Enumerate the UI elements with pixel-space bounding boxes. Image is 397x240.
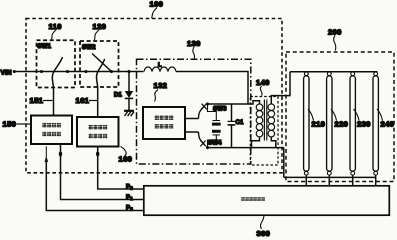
- switch box SW2 (120): [80, 41, 119, 87]
- svg-text:240: 240: [381, 120, 395, 129]
- label 150: [3, 120, 32, 129]
- svg-text:SW1: SW1: [38, 44, 52, 50]
- diode D1: [114, 72, 133, 111]
- lamp top bus: [290, 71, 378, 73]
- node bottom line: [208, 147, 284, 149]
- ground: [124, 111, 134, 116]
- arrow blob U1 out: [59, 151, 62, 156]
- wire primary bottom: [252, 137, 260, 148]
- svg-text:C1: C1: [236, 120, 245, 126]
- label 160: [119, 147, 133, 164]
- control box U3 第三开关控制部件: [143, 107, 185, 139]
- wire ctrl to SW4: [185, 131, 199, 133]
- label 200: [328, 28, 342, 51]
- node dot: [66, 70, 69, 73]
- svg-text:VIN: VIN: [1, 70, 12, 77]
- lamp bottom bus: [284, 176, 376, 178]
- switch SW2 cross line: [92, 54, 112, 72]
- svg-text:110: 110: [49, 22, 62, 31]
- node dot: [110, 70, 113, 73]
- svg-text:SW2: SW2: [82, 45, 96, 51]
- wire P1 from U1: [61, 144, 144, 200]
- svg-text:161: 161: [76, 96, 90, 105]
- wire secondary bottom: [271, 137, 284, 178]
- svg-text:300: 300: [257, 229, 271, 237]
- lamp 210: [304, 72, 309, 186]
- wire SW2 to box 160: [97, 87, 99, 117]
- wire rail after L: [176, 72, 248, 105]
- svg-text:P3: P3: [126, 205, 133, 211]
- wire SW1 to box 150: [53, 88, 55, 116]
- svg-text:120: 120: [93, 22, 107, 31]
- control box U1 第一开关控制部件 (150): [31, 116, 72, 145]
- label 110: [49, 22, 62, 40]
- transformer box 140 dashed: [250, 97, 278, 166]
- svg-text:P1: P1: [126, 195, 133, 201]
- label 120: [93, 22, 107, 40]
- transformer T1 primary: [256, 104, 263, 137]
- wire P2 from U2: [98, 147, 144, 190]
- outer dashed box 100: [26, 19, 282, 173]
- label 132: [154, 81, 168, 102]
- svg-text:SW4: SW4: [208, 141, 222, 147]
- label 300: [257, 216, 271, 238]
- transformer core: [264, 100, 266, 141]
- svg-text:150: 150: [3, 120, 17, 129]
- switch SW1 blade: [52, 57, 62, 88]
- wire P3 feedback to U1: [45, 146, 144, 210]
- node top line: [208, 101, 260, 104]
- control box U2 第二开关控制部件 (160): [77, 117, 119, 147]
- inductor L: [144, 63, 176, 72]
- label 240: [377, 109, 394, 129]
- svg-text:P2: P2: [126, 185, 133, 191]
- svg-text:220: 220: [335, 120, 349, 129]
- lamp 220: [327, 72, 332, 186]
- lamp 240: [373, 72, 378, 186]
- label 151: [30, 96, 53, 105]
- switch SW3: [199, 102, 228, 118]
- label 161: [76, 96, 98, 105]
- label 230: [354, 109, 371, 129]
- wire VIN rail: [14, 71, 143, 73]
- SW4 contact bars: [208, 130, 221, 148]
- label 210: [308, 109, 325, 129]
- label 220: [331, 109, 348, 129]
- svg-text:210: 210: [312, 120, 326, 129]
- switch SW4: [199, 132, 223, 149]
- feedback box 300 反馈控制部件: [144, 186, 389, 215]
- SW3 contact bars: [208, 104, 221, 126]
- lamp house box 200 dashed: [286, 52, 394, 182]
- svg-text:D1: D1: [114, 93, 123, 99]
- svg-text:140: 140: [256, 78, 270, 87]
- label 140: [256, 78, 270, 96]
- svg-text:132: 132: [154, 81, 168, 90]
- svg-text:230: 230: [357, 120, 371, 129]
- lamp 230: [350, 72, 355, 186]
- wire ctrl to SW3: [185, 118, 199, 120]
- box 130 dash-dot: [137, 59, 251, 164]
- capacitor C1: [228, 104, 244, 148]
- wire secondary top: [271, 72, 290, 104]
- label 130: [187, 39, 201, 59]
- svg-text:100: 100: [150, 0, 164, 9]
- svg-text:151: 151: [30, 96, 44, 105]
- switch SW2 blade: [97, 59, 105, 87]
- node dot: [84, 70, 87, 73]
- arrow blob U2 out: [96, 151, 99, 156]
- switch box SW1 (110): [37, 40, 76, 87]
- svg-text:130: 130: [187, 39, 201, 48]
- svg-text:200: 200: [328, 28, 342, 37]
- node dot: [40, 70, 43, 73]
- node dot D1 tap: [127, 70, 130, 73]
- VIN terminal: [1, 70, 16, 77]
- transformer T1 secondary: [268, 104, 275, 137]
- label 100: [150, 0, 164, 19]
